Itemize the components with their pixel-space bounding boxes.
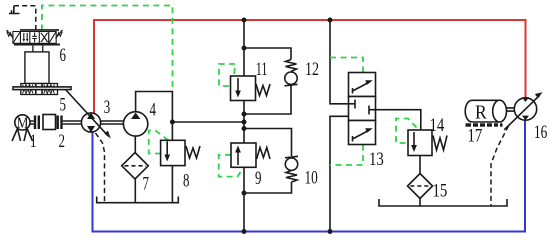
svg-text:15: 15 [433,180,448,201]
svg-text:5: 5 [60,94,66,115]
svg-text:17: 17 [468,125,483,146]
svg-text:13: 13 [369,148,384,169]
svg-text:10: 10 [305,166,318,188]
svg-text:9: 9 [255,168,261,189]
svg-text:7: 7 [143,173,149,194]
svg-text:R: R [475,102,487,124]
svg-text:14: 14 [430,114,445,135]
svg-text:1: 1 [30,131,36,152]
svg-text:8: 8 [183,170,189,191]
svg-text:3: 3 [104,97,110,118]
svg-text:2: 2 [59,131,65,152]
svg-text:16: 16 [534,121,547,143]
svg-text:4: 4 [150,99,156,120]
svg-text:11: 11 [256,60,268,80]
svg-text:12: 12 [305,58,319,80]
svg-text:6: 6 [60,45,66,66]
